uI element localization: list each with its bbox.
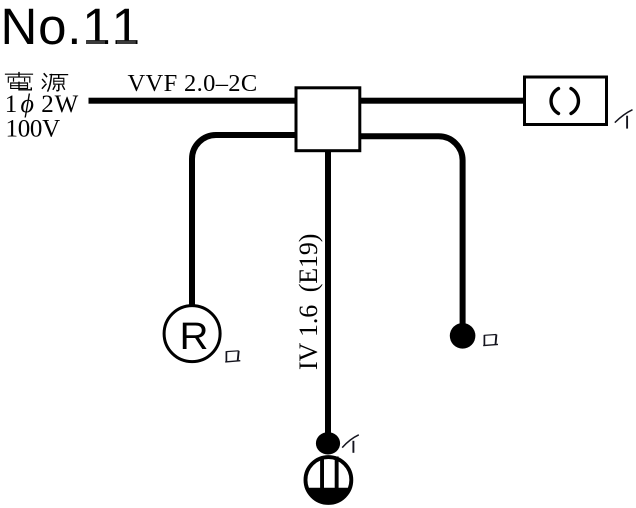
svg-text:100V: 100V: [6, 115, 61, 142]
svg-text:IV 1.6 (E19): IV 1.6 (E19): [294, 234, 323, 370]
wire: junction box to ceiling fixture: [360, 98, 524, 104]
label ロ (switch): [483, 335, 498, 346]
lamp receptacle R: [164, 306, 220, 362]
label イ (ceiling fixture): [615, 110, 633, 129]
switch イ (single-pole): [316, 432, 340, 454]
wire: junction box right branch to switch ロ (curved): [360, 136, 463, 324]
junction box: [296, 88, 360, 151]
wire: junction box left branch to lamp receptacle (curved): [192, 135, 295, 305]
power source label 電源 1φ2W 100V: [5, 73, 79, 143]
wire: junction box down conduit to switch イ: [325, 152, 331, 437]
title No.11: [1, 0, 141, 55]
ceiling fixture (angled-hook ceiling) イ: [525, 77, 607, 125]
kanji 源: [42, 74, 67, 91]
svg-text:No.11: No.11: [1, 0, 141, 55]
label ロ (lamp receptacle): [225, 351, 240, 362]
label イ (switch): [342, 435, 359, 453]
svg-text:VVF 2.0–2C: VVF 2.0–2C: [128, 70, 258, 97]
svg-text:1ϕ2W: 1ϕ2W: [5, 89, 79, 118]
wire: power source to junction box: [89, 98, 296, 104]
wall outlet (receptacle): [306, 457, 352, 505]
svg-text:R: R: [180, 316, 209, 358]
switch ロ (single-pole): [450, 323, 476, 349]
kanji 電: [6, 73, 33, 90]
